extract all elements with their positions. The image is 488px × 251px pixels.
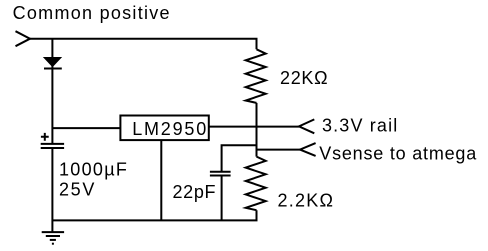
svg-text:22pF: 22pF — [173, 182, 217, 202]
svg-text:25V: 25V — [59, 180, 96, 200]
svg-text:1000µF: 1000µF — [59, 160, 128, 180]
svg-text:3.3V rail: 3.3V rail — [322, 115, 398, 135]
svg-text:2.2KΩ: 2.2KΩ — [278, 191, 335, 211]
svg-text:Common positive: Common positive — [13, 3, 171, 23]
svg-text:LM2950: LM2950 — [132, 119, 208, 139]
svg-text:22KΩ: 22KΩ — [280, 68, 328, 88]
svg-text:Vsense to atmega: Vsense to atmega — [319, 144, 477, 164]
